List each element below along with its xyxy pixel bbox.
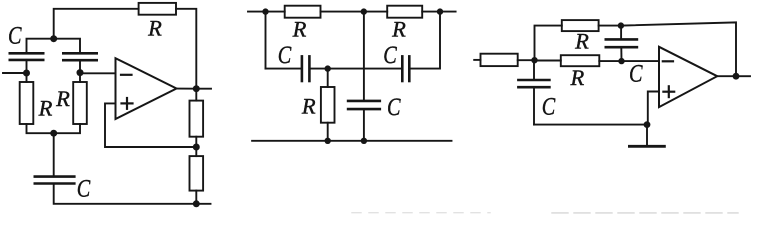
wire C8 bottom to node 3B	[620, 47, 622, 61]
U1 minus sign	[121, 74, 132, 76]
wire bottom row from C7 to ground node	[534, 124, 647, 126]
svg-text:C: C	[383, 42, 397, 69]
capacitor C7	[518, 80, 549, 87]
wire C3 to bottom rail	[54, 184, 211, 204]
node 2B (top middle)	[361, 8, 367, 14]
wire node T to C2 top	[54, 39, 80, 54]
wire node T up and right to feedback resistor R3	[54, 9, 139, 39]
svg-text:R: R	[55, 86, 70, 111]
node 3A	[531, 57, 537, 63]
wire node A down to R1	[26, 73, 28, 82]
capacitor C5	[402, 56, 409, 81]
wire input stub	[248, 11, 266, 13]
op-amp U2	[659, 47, 717, 107]
capacitor C2	[63, 53, 96, 60]
wire R10 to node 3T	[599, 25, 621, 27]
U2 plus sign	[663, 86, 674, 97]
node bottom rail / divider bottom	[193, 200, 200, 207]
wire op-amp noninverting input to node D	[105, 103, 196, 147]
wire C2 bottom to node B	[79, 60, 81, 72]
U1 plus sign	[122, 98, 133, 109]
wire feedback top to output column	[621, 22, 736, 76]
wire C6 bottom to rail	[363, 109, 365, 141]
capacitor C3	[35, 177, 75, 184]
wire left vertical down to capacitor row	[265, 12, 267, 69]
wire output stub	[196, 88, 211, 90]
node rail-C6	[361, 138, 367, 144]
wire R6 to node 2B	[321, 11, 364, 13]
resistor R3 (feedback)	[139, 3, 176, 15]
wire input stub to node A	[3, 72, 27, 74]
svg-text:C: C	[542, 94, 556, 121]
svg-text:R: R	[391, 17, 406, 42]
resistor R2	[73, 82, 87, 124]
node OUT (op-amp output)	[193, 85, 200, 92]
wire node 3A down to C7	[533, 60, 535, 80]
svg-text:R: R	[38, 96, 53, 121]
wire R5 bottom lead	[195, 191, 197, 204]
node M (resistors common bottom)	[50, 130, 57, 137]
capacitor C1	[10, 53, 43, 60]
wire node 2B down to C6 (crosses cap row, no junction)	[363, 12, 365, 101]
node 3B (inverting input line)	[618, 58, 624, 64]
wire R7 to node 2C	[422, 11, 440, 13]
wire R8 bottom to rail	[327, 123, 329, 141]
resistor R11 (series to inverting input)	[561, 55, 600, 66]
resistor R9 (input)	[481, 54, 518, 66]
wire C5 right to corner up to node 2C	[411, 12, 440, 69]
wire node B down to R2	[79, 73, 81, 82]
svg-text:C: C	[278, 42, 292, 69]
wire node 2A to R6	[266, 11, 285, 13]
wire noninverting input down to ground node	[648, 92, 659, 125]
op-amp U1	[116, 58, 177, 119]
svg-text:R: R	[147, 16, 162, 41]
resistor R10 (feedback)	[562, 20, 599, 31]
wire C1 top to node T	[27, 39, 54, 54]
wire node 3A up to top feedback row	[535, 26, 562, 61]
node rail-R8	[325, 138, 331, 144]
wire to C4	[266, 68, 301, 70]
wire R1 and R2 bottoms to node M	[27, 124, 81, 133]
resistor R8	[321, 87, 335, 123]
node ground junction	[644, 121, 651, 128]
wire node B to op-amp inverting input	[80, 72, 116, 74]
wire bottom rail	[252, 140, 451, 142]
node OUT2	[733, 73, 740, 80]
wire U2 output to node OUT2	[717, 75, 736, 77]
wire R4 bottom lead to node D	[195, 137, 197, 147]
resistor R1	[20, 82, 34, 124]
wire node 2D to C5 (crosses middle vertical, no junction)	[328, 68, 401, 70]
capacitor C6	[348, 101, 380, 109]
wire R3 to output column	[176, 9, 196, 89]
wire node 2D down to R8	[327, 69, 329, 87]
node B	[77, 69, 84, 76]
resistor R5 (divider lower)	[190, 156, 204, 191]
wire node 3A to R11	[535, 60, 561, 62]
svg-text:C: C	[8, 23, 22, 50]
wire R9 to node 3A	[518, 59, 535, 61]
wire node 3T down to C8	[620, 26, 622, 40]
wire input stub	[474, 59, 480, 61]
svg-text:C: C	[629, 61, 643, 88]
node D (divider midpoint)	[193, 144, 200, 151]
node 2D (caps midpoint)	[325, 65, 331, 71]
node 2C (top right)	[437, 8, 443, 14]
U2 minus sign	[663, 60, 673, 62]
svg-text:R: R	[301, 94, 316, 119]
svg-text:C: C	[77, 176, 91, 203]
capacitor C4	[302, 56, 310, 81]
node 2A (top-left)	[262, 8, 268, 14]
node 3T (feedback junction)	[618, 22, 624, 28]
wire C4 to node 2D	[311, 68, 328, 70]
wire U1 output to node OUT	[177, 88, 197, 90]
svg-text:R: R	[574, 29, 589, 54]
resistor R4 (divider upper)	[190, 101, 204, 137]
capacitor C8 (feedback)	[606, 39, 637, 47]
wire node 2B to R7	[364, 11, 387, 13]
node A (input junction)	[23, 70, 30, 77]
node T (caps common top)	[50, 35, 57, 42]
wire R4 top lead to output node	[195, 89, 197, 101]
wire node M down to C3	[53, 133, 55, 176]
wire R11 to node 3B and op-amp inverting input	[599, 60, 659, 62]
resistor R6	[285, 6, 321, 18]
wire node A up to C1	[26, 60, 28, 73]
wire output stub	[736, 75, 750, 77]
faint print-through smudges at bottom edge	[352, 212, 738, 214]
wire C7 bottom to bottom row	[533, 87, 535, 124]
svg-text:R: R	[292, 17, 307, 42]
svg-text:C: C	[387, 94, 401, 121]
ground	[629, 125, 664, 147]
svg-text:R: R	[570, 65, 585, 90]
wire output stub	[440, 11, 456, 13]
wire R5 top lead to node D	[195, 147, 197, 156]
resistor R7	[387, 6, 422, 18]
